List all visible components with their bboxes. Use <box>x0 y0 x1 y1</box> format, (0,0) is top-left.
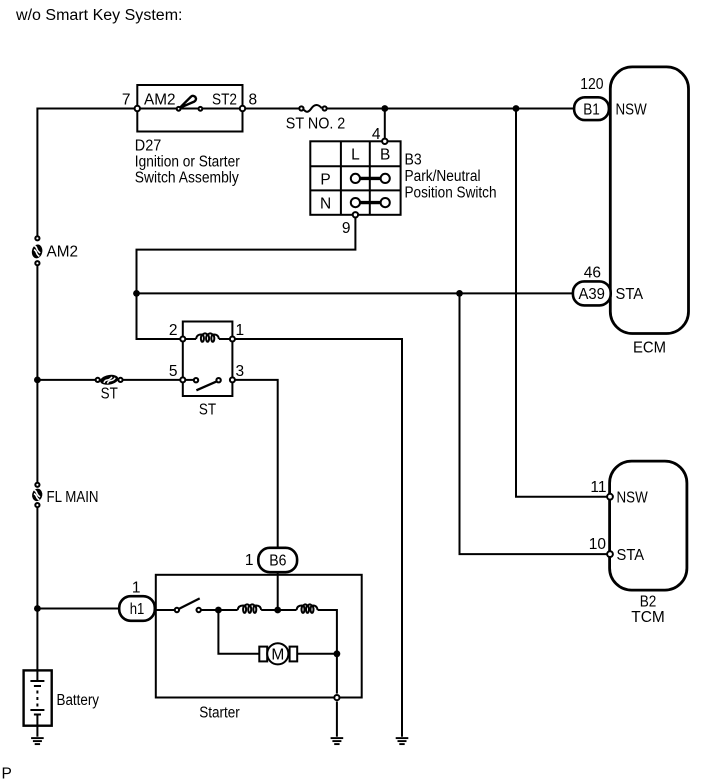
svg-text:P: P <box>2 766 12 782</box>
svg-text:Starter: Starter <box>199 705 240 722</box>
svg-text:STA: STA <box>616 286 644 303</box>
svg-text:3: 3 <box>236 363 245 380</box>
svg-text:L: L <box>351 147 360 164</box>
svg-text:B3: B3 <box>405 152 422 169</box>
svg-text:Position Switch: Position Switch <box>405 185 497 202</box>
svg-text:1: 1 <box>245 552 254 569</box>
svg-text:4: 4 <box>372 126 381 143</box>
svg-text:ECM: ECM <box>633 340 666 357</box>
svg-text:1: 1 <box>236 322 245 339</box>
svg-text:D27: D27 <box>135 138 162 155</box>
svg-text:B: B <box>380 147 390 164</box>
svg-text:w/o Smart Key System:: w/o Smart Key System: <box>15 7 183 24</box>
svg-text:8: 8 <box>249 92 258 109</box>
svg-text:10: 10 <box>589 536 607 553</box>
svg-text:B2: B2 <box>640 593 657 610</box>
svg-text:N: N <box>320 195 331 212</box>
svg-text:NSW: NSW <box>616 101 648 118</box>
svg-text:A39: A39 <box>578 286 605 303</box>
svg-text:5: 5 <box>169 363 178 380</box>
svg-text:Switch Assembly: Switch Assembly <box>135 170 239 187</box>
svg-text:B1: B1 <box>583 101 600 118</box>
svg-text:Ignition or Starter: Ignition or Starter <box>135 154 240 171</box>
svg-text:TCM: TCM <box>631 609 665 626</box>
svg-text:9: 9 <box>342 220 351 237</box>
svg-text:M: M <box>271 646 284 663</box>
svg-text:Park/Neutral: Park/Neutral <box>405 168 481 185</box>
svg-text:NSW: NSW <box>617 489 649 506</box>
svg-text:AM2: AM2 <box>144 92 176 109</box>
svg-text:1: 1 <box>132 579 141 596</box>
svg-text:ST: ST <box>101 386 119 403</box>
svg-text:Battery: Battery <box>57 692 100 709</box>
svg-text:ST2: ST2 <box>212 92 237 109</box>
svg-text:46: 46 <box>584 265 601 282</box>
svg-text:ST: ST <box>199 401 217 418</box>
svg-text:AM2: AM2 <box>47 243 79 260</box>
svg-text:h1: h1 <box>130 601 145 618</box>
svg-text:FL MAIN: FL MAIN <box>47 489 99 506</box>
svg-text:11: 11 <box>590 479 606 496</box>
svg-text:120: 120 <box>580 76 604 93</box>
svg-text:B6: B6 <box>269 553 286 570</box>
svg-text:ST NO. 2: ST NO. 2 <box>286 115 346 132</box>
svg-text:STA: STA <box>617 547 645 564</box>
svg-text:7: 7 <box>122 92 131 109</box>
svg-text:P: P <box>320 171 330 188</box>
svg-text:2: 2 <box>169 322 178 339</box>
